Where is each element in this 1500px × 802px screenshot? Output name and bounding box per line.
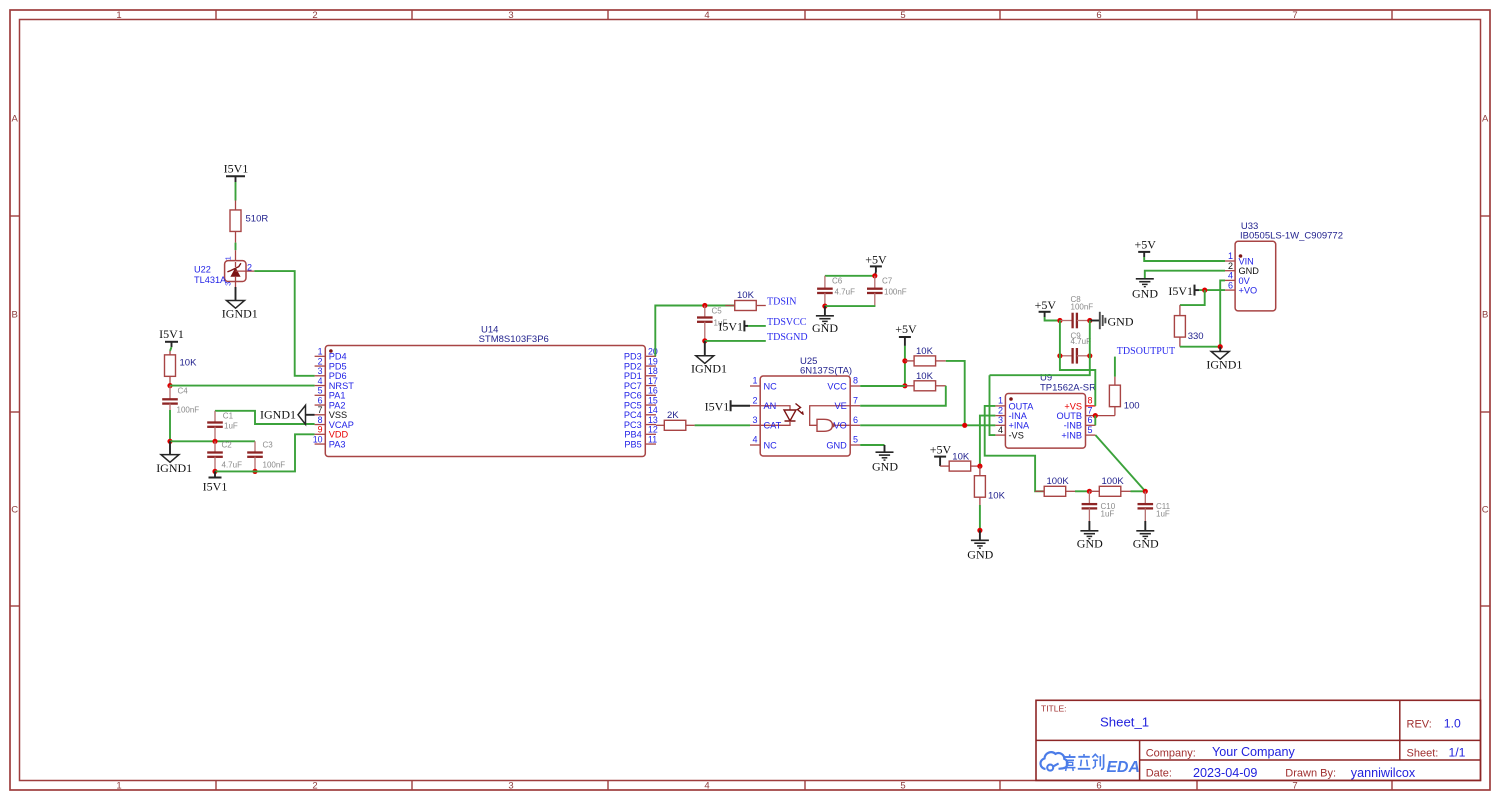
U14 pin 5 PA1: [315, 386, 346, 401]
svg-text:9: 9: [318, 425, 323, 435]
node C6 bottom: [822, 304, 827, 309]
svg-text:CAT: CAT: [764, 421, 782, 431]
svg-text:GND: GND: [967, 547, 993, 561]
power +5V (U33): [1134, 238, 1156, 257]
svg-text:8: 8: [853, 376, 858, 386]
svg-text:B: B: [1482, 310, 1488, 321]
svg-text:PC6: PC6: [624, 391, 642, 401]
resistor 100K (second): [1089, 476, 1130, 497]
resistor 10K (TDSIN): [725, 290, 766, 311]
ground IGND1 (U33): [1206, 352, 1242, 372]
svg-text:PD1: PD1: [624, 371, 642, 381]
node junction row441 left: [167, 439, 172, 444]
wire U22 pin2 to U14 PD6: [254, 271, 314, 376]
svg-text:STM8S103F3P6: STM8S103F3P6: [479, 334, 549, 345]
U14 pin 1 PD4: [315, 347, 347, 362]
svg-text:+5V: +5V: [865, 252, 887, 266]
svg-text:PA3: PA3: [329, 439, 346, 449]
svg-text:VCAP: VCAP: [329, 420, 354, 430]
wire I5V1 to R10K: [170, 347, 172, 351]
svg-text:B: B: [12, 310, 18, 321]
ground IGND1 (below U22): [222, 301, 258, 321]
svg-text:4.7uF: 4.7uF: [222, 460, 243, 469]
svg-text:TDSGND: TDSGND: [767, 332, 808, 343]
svg-text:100K: 100K: [1102, 476, 1125, 487]
svg-text:1: 1: [116, 10, 121, 21]
node C11 junction: [1143, 489, 1148, 494]
ground IGND1 (left): [156, 455, 192, 475]
svg-text:3: 3: [752, 415, 757, 425]
U14 pin 9 VDD: [315, 425, 349, 440]
wire junction to 330: [1180, 290, 1205, 305]
wire TDSOUTPUT down: [1114, 357, 1116, 377]
U25 pin 5 GND: [826, 435, 860, 451]
svg-text:18: 18: [648, 366, 658, 376]
node junction 10K-1: [902, 358, 907, 363]
wire GND rail to -VS: [990, 321, 1090, 376]
svg-text:Sheet_1: Sheet_1: [1100, 715, 1149, 730]
svg-text:I5V1: I5V1: [159, 327, 184, 341]
capacitor C7 100nF: [867, 276, 907, 306]
svg-text:1uF: 1uF: [224, 422, 238, 431]
svg-text:Drawn By:: Drawn By:: [1285, 768, 1336, 780]
U25 pin 2 AN: [750, 395, 776, 411]
ground GND (divider): [967, 540, 993, 561]
wire C1 top run to VCAP: [215, 411, 315, 424]
svg-text:4.7uF: 4.7uF: [835, 288, 856, 297]
ground IGND1 (C5): [691, 356, 727, 376]
svg-text:5: 5: [853, 435, 858, 445]
JLC EDA logo: [1041, 752, 1140, 776]
svg-text:2: 2: [312, 781, 317, 792]
U14 pin 20 PD3: [624, 347, 658, 362]
svg-text:1: 1: [1228, 251, 1233, 261]
wire 2K to U25 CAT: [695, 424, 750, 426]
svg-text:VE: VE: [835, 401, 847, 411]
svg-text:TDSOUTPUT: TDSOUTPUT: [1117, 346, 1175, 357]
wire 10K-2 to VE: [860, 386, 946, 406]
svg-text:IGND1: IGND1: [156, 461, 192, 475]
U14 pin 19 PD2: [624, 356, 658, 371]
node C10 junction: [1087, 489, 1092, 494]
svg-text:IGND1: IGND1: [222, 306, 258, 320]
svg-text:5: 5: [900, 10, 905, 21]
svg-text:4: 4: [1228, 271, 1233, 281]
svg-text:0V: 0V: [1239, 276, 1251, 286]
svg-text:Your Company: Your Company: [1212, 745, 1296, 759]
svg-text:15: 15: [648, 395, 658, 405]
svg-text:PD5: PD5: [329, 361, 347, 371]
svg-text:10K: 10K: [916, 346, 934, 357]
wire +5V to VIN: [1144, 257, 1225, 261]
svg-text:4: 4: [318, 376, 323, 386]
svg-text:C7: C7: [882, 277, 893, 286]
U9 pin 6 -INB: [1064, 415, 1096, 431]
svg-text:1: 1: [224, 256, 233, 260]
U33 pin 1 VIN: [1225, 251, 1254, 266]
net port I5V1 (U33 +VO): [1168, 284, 1199, 298]
svg-text:A: A: [12, 114, 19, 125]
node IGND1 junction: [1218, 344, 1223, 349]
U25 pin 7 VE: [835, 395, 861, 411]
U14 pin 4 NRST: [315, 376, 355, 391]
svg-text:+INB: +INB: [1061, 431, 1082, 441]
U14 pin 15 PC5: [624, 395, 658, 410]
svg-text:100nF: 100nF: [884, 288, 907, 297]
node C7 top: [872, 273, 877, 278]
U14 pin 13 PC3: [624, 415, 658, 430]
svg-text:3: 3: [318, 366, 323, 376]
svg-text:PC7: PC7: [624, 381, 642, 391]
svg-text:VO: VO: [834, 421, 847, 431]
resistor 100: [1109, 377, 1139, 416]
resistor 10K (to VO): [905, 346, 946, 366]
svg-text:2: 2: [247, 262, 252, 272]
svg-text:-VS: -VS: [1009, 431, 1024, 441]
svg-text:PA1: PA1: [329, 391, 346, 401]
svg-text:19: 19: [648, 356, 658, 366]
svg-text:GND: GND: [1133, 536, 1159, 550]
svg-text:-INA: -INA: [1009, 411, 1028, 421]
wire 100 to OUTB: [1096, 415, 1115, 417]
node C2 bottom: [212, 469, 217, 474]
wire OUTA down to 100K: [985, 406, 1044, 491]
svg-text:13: 13: [648, 415, 658, 425]
wire bottom rail to VDD: [215, 434, 315, 471]
U25 pin 4 NC: [750, 435, 777, 451]
U14 pin 14 PC4: [624, 405, 658, 420]
U33 pin 6 +VO: [1225, 280, 1257, 295]
svg-text:GND: GND: [1077, 536, 1103, 550]
U25 LED symbol: [760, 404, 804, 426]
svg-text:PD6: PD6: [329, 371, 347, 381]
svg-text:4: 4: [752, 435, 757, 445]
svg-text:510R: 510R: [246, 214, 269, 225]
U33 pin 4 0V: [1225, 271, 1251, 286]
capacitor C11 1uF: [1138, 491, 1171, 521]
svg-text:I5V1: I5V1: [1168, 284, 1193, 298]
node VO junction: [962, 423, 967, 428]
svg-text:5: 5: [900, 781, 905, 792]
svg-text:GND: GND: [1108, 314, 1134, 328]
svg-text:3: 3: [508, 10, 513, 21]
wire 0V down: [1220, 280, 1225, 346]
wire GND to earth: [1145, 271, 1225, 279]
net port I5V1 (TDSVCC): [718, 320, 748, 334]
svg-text:10K: 10K: [916, 371, 934, 382]
U25 pin 1 NC: [750, 376, 777, 392]
op-amp U14 body STM8S103F3P6: [325, 325, 645, 457]
svg-text:1: 1: [116, 781, 121, 792]
svg-text:3: 3: [998, 415, 1003, 425]
capacitor C5 1uF: [697, 306, 727, 341]
node C5 bottom junction: [702, 338, 707, 343]
resistor 10K (divider top): [940, 451, 980, 471]
U25 pin 3 CAT: [750, 415, 782, 431]
U14 pin 6 PA2: [315, 395, 346, 410]
svg-text:-INB: -INB: [1064, 421, 1082, 431]
svg-text:PD4: PD4: [329, 352, 347, 362]
svg-text:4: 4: [998, 425, 1003, 435]
svg-text:Sheet:: Sheet:: [1407, 747, 1439, 759]
node NRST junction: [167, 383, 172, 388]
svg-text:REV:: REV:: [1407, 718, 1432, 730]
svg-text:C6: C6: [832, 277, 843, 286]
svg-text:1.0: 1.0: [1444, 716, 1461, 730]
net port I5V1 (U25 AN): [705, 399, 750, 413]
U14 pin 11 PB5: [624, 434, 657, 449]
resistor 2K: [656, 410, 695, 431]
svg-text:4: 4: [704, 10, 709, 21]
U14 pin 8 VCAP: [315, 415, 354, 430]
svg-text:100nF: 100nF: [1071, 302, 1094, 311]
power +5V (U25 pullups): [895, 322, 917, 346]
svg-text:8: 8: [318, 415, 323, 425]
svg-text:IB0505LS-1W_C909772: IB0505LS-1W_C909772: [1240, 231, 1343, 242]
wire I5V1 to R510: [235, 182, 237, 201]
svg-text:8: 8: [1088, 396, 1093, 406]
svg-text:100nF: 100nF: [263, 460, 286, 469]
svg-text:AN: AN: [764, 401, 777, 411]
wire OUTB to -INB: [1094, 416, 1096, 426]
resistor 330: [1174, 305, 1203, 347]
svg-text:10K: 10K: [737, 290, 755, 301]
svg-text:PC3: PC3: [624, 420, 642, 430]
svg-text:6N137S(TA): 6N137S(TA): [800, 366, 852, 377]
svg-text:11: 11: [648, 434, 657, 444]
svg-text:+VO: +VO: [1239, 286, 1258, 296]
wire 100K1 to junction: [1075, 490, 1089, 492]
svg-text:+INA: +INA: [1009, 421, 1031, 431]
power +5V (divider): [930, 442, 952, 466]
svg-text:I5V1: I5V1: [203, 480, 228, 494]
svg-text:A: A: [1482, 114, 1489, 125]
wire TDSGND: [705, 340, 766, 342]
svg-text:Company:: Company:: [1146, 747, 1196, 759]
wire to IGND1: [1219, 347, 1221, 352]
svg-text:330: 330: [1188, 331, 1204, 342]
capacitor C8 100nF: [1060, 295, 1093, 329]
U14 pin 3 PD6: [315, 366, 347, 381]
net port I5V1 (bottom): [203, 471, 228, 493]
svg-text:Date:: Date:: [1146, 768, 1172, 780]
svg-text:PD2: PD2: [624, 361, 642, 371]
svg-text:TL431A: TL431A: [194, 275, 227, 285]
svg-text:2: 2: [318, 356, 323, 366]
U9 pin 4 -VS: [995, 425, 1023, 441]
svg-text:2K: 2K: [667, 410, 679, 421]
wire +5V rail: [875, 272, 876, 276]
svg-text:4.7uF: 4.7uF: [1071, 337, 1092, 346]
resistor 510R: [230, 201, 268, 243]
svg-text:1uF: 1uF: [1156, 509, 1170, 518]
net port I5V1 (left): [159, 327, 184, 347]
capacitor C4 100nF: [162, 386, 199, 415]
svg-text:OUTA: OUTA: [1009, 401, 1035, 411]
svg-text:1: 1: [752, 376, 757, 386]
svg-text:C1: C1: [223, 412, 234, 421]
net port I5V1 (top): [224, 162, 249, 183]
svg-text:VSS: VSS: [329, 410, 347, 420]
wire R510 to U22: [235, 243, 237, 251]
ground IGND1 flag to VSS: [260, 405, 315, 424]
wire C6-C7 bottom: [825, 305, 876, 307]
svg-text:EDA: EDA: [1107, 759, 1140, 776]
node C8 right: [1087, 318, 1092, 323]
svg-text:NC: NC: [764, 381, 778, 391]
node C8 left: [1057, 318, 1062, 323]
op-amp U33 body IB0505LS-1W: [1235, 221, 1343, 311]
ground GND (U33): [1132, 279, 1158, 301]
svg-text:IGND1: IGND1: [260, 408, 296, 422]
wire 10K to GND: [979, 505, 981, 530]
svg-text:16: 16: [648, 386, 658, 396]
wire C4 down: [169, 410, 171, 441]
svg-text:+5V: +5V: [1134, 238, 1156, 252]
U25 pin 8 VCC: [827, 376, 860, 392]
node divider junction: [977, 464, 982, 469]
U33 pin 2 GND: [1225, 261, 1259, 276]
svg-text:GND: GND: [1132, 286, 1158, 300]
node junction 10K-2 / VCC: [902, 383, 907, 388]
svg-text:I5V1: I5V1: [718, 320, 743, 334]
svg-text:PB4: PB4: [624, 430, 641, 440]
svg-text:C5: C5: [712, 307, 723, 316]
U14 pin 18 PD1: [624, 366, 658, 381]
U14 pin 17 PC7: [624, 376, 658, 391]
svg-text:6: 6: [1228, 280, 1233, 290]
U14 pin 7 VSS: [315, 405, 348, 420]
svg-text:7: 7: [1088, 405, 1093, 415]
resistor 10K (divider bottom): [974, 466, 1005, 505]
node GND junction: [977, 528, 982, 533]
svg-text:2: 2: [752, 395, 757, 405]
svg-text:10K: 10K: [988, 490, 1006, 501]
svg-text:TDSIN: TDSIN: [767, 297, 796, 308]
svg-text:17: 17: [648, 376, 658, 386]
node C5 top junction: [702, 303, 707, 308]
svg-text:7: 7: [1292, 10, 1297, 21]
svg-text:1uF: 1uF: [1101, 509, 1115, 518]
svg-text:U22: U22: [194, 264, 211, 274]
svg-text:PA2: PA2: [329, 400, 346, 410]
svg-text:OUTB: OUTB: [1056, 411, 1082, 421]
svg-text:7: 7: [318, 405, 323, 415]
wire 330 to IGND1 rail: [1180, 346, 1220, 348]
svg-text:TITLE:: TITLE:: [1041, 704, 1067, 714]
resistor 10K (NRST pullup): [165, 351, 198, 386]
power +5V (C8 C9): [1035, 298, 1057, 317]
U14 pin 10 PA3: [313, 434, 346, 449]
ground GND (flag right): [1100, 312, 1134, 329]
node OUTB junction: [1093, 413, 1098, 418]
wire junction row441: [170, 440, 255, 442]
wire +5V down: [904, 346, 906, 386]
svg-text:NC: NC: [764, 440, 778, 450]
capacitor C9 4.7uF: [1060, 331, 1091, 363]
svg-text:C: C: [11, 505, 18, 516]
U9 pin 1 OUTA: [995, 396, 1034, 412]
svg-text:10K: 10K: [180, 358, 198, 369]
svg-text:1: 1: [998, 396, 1003, 406]
svg-text:VDD: VDD: [329, 430, 349, 440]
svg-text:TDSVCC: TDSVCC: [767, 317, 807, 328]
svg-text:TP1562A-SR: TP1562A-SR: [1040, 383, 1096, 394]
wire VO to U9 +INA: [860, 424, 995, 426]
svg-text:2: 2: [998, 405, 1003, 415]
wire to U14 NRST: [170, 385, 315, 387]
svg-text:7: 7: [853, 395, 858, 405]
wire TDSVCC: [748, 325, 766, 327]
svg-text:6: 6: [1096, 10, 1101, 21]
svg-text:12: 12: [648, 425, 658, 435]
U9 pin 3 +INA: [995, 415, 1030, 431]
power +5V (C6 C7): [865, 252, 887, 272]
wire +VO: [1199, 289, 1225, 291]
svg-text:2: 2: [1228, 261, 1233, 271]
wire to earth: [979, 530, 981, 540]
transistor U22 TL431A: [194, 250, 254, 287]
U9 pin 7 OUTB: [1056, 405, 1095, 421]
ground GND (C6): [812, 316, 838, 335]
svg-text:6: 6: [1096, 781, 1101, 792]
wire U25 GND to earth: [860, 444, 884, 446]
node C1/C2 junction: [212, 439, 217, 444]
svg-text:14: 14: [648, 405, 658, 415]
svg-text:IGND1: IGND1: [691, 362, 727, 376]
svg-text:7: 7: [1292, 781, 1297, 792]
capacitor C10 1uF: [1082, 491, 1116, 521]
svg-text:6: 6: [318, 395, 323, 405]
title block: [1036, 700, 1481, 780]
svg-text:PD3: PD3: [624, 352, 642, 362]
svg-text:VIN: VIN: [1239, 256, 1254, 266]
svg-text:C4: C4: [178, 387, 189, 396]
wire to GND: [824, 306, 826, 316]
svg-text:I5V1: I5V1: [705, 399, 730, 413]
svg-text:I5V1: I5V1: [224, 162, 249, 176]
svg-text:100K: 100K: [1047, 476, 1070, 487]
svg-text:PC4: PC4: [624, 410, 642, 420]
wire PD3 up and right: [655, 306, 735, 357]
op-amp U9 body TP1562A-SR: [1005, 373, 1096, 449]
svg-text:5: 5: [318, 386, 323, 396]
wire C8 to GND flag: [1090, 320, 1100, 322]
wire C5 to IGND1: [704, 341, 706, 356]
svg-text:C: C: [1482, 505, 1489, 516]
wire 10K-1 to VO net: [946, 361, 965, 425]
wire 100K2 to junction: [1131, 490, 1146, 492]
resistor 10K (to VE): [905, 371, 946, 391]
svg-text:100: 100: [1124, 400, 1140, 411]
node C9 left: [1057, 353, 1062, 358]
U25 pin 6 VO: [834, 415, 861, 431]
capacitor C3 100nF: [247, 441, 285, 472]
svg-text:GND: GND: [826, 440, 847, 450]
svg-text:GND: GND: [872, 459, 898, 473]
wire -VS from GND rail: [990, 375, 996, 435]
svg-text:IGND1: IGND1: [1206, 357, 1242, 371]
node C3 bottom: [252, 469, 257, 474]
node +VO junction: [1202, 288, 1207, 293]
svg-text:100nF: 100nF: [177, 406, 200, 415]
U14 pin 2 PD5: [315, 356, 347, 371]
svg-text:VCC: VCC: [827, 381, 847, 391]
wire C11 to GND: [1144, 521, 1146, 531]
wire +5V to C8: [1045, 317, 1060, 321]
node C9 right: [1087, 353, 1092, 358]
wire U22 to IGND1: [235, 287, 237, 301]
